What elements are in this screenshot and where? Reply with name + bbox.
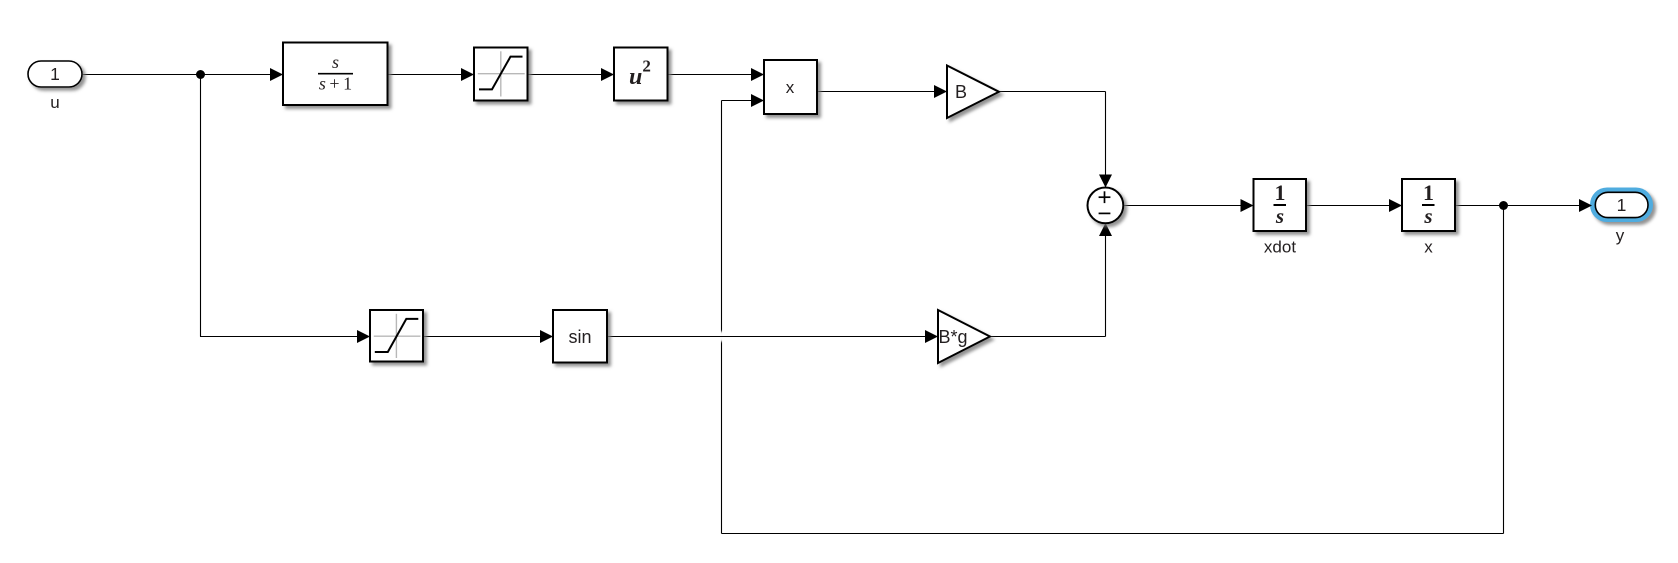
svg-text:y: y — [1616, 226, 1625, 245]
svg-text:1: 1 — [1423, 180, 1434, 205]
svg-text:s: s — [1275, 204, 1284, 228]
svg-text:x: x — [1424, 238, 1433, 257]
svg-text:s + 1: s + 1 — [319, 74, 352, 94]
svg-text:s: s — [1423, 204, 1432, 228]
svg-text:1: 1 — [1275, 180, 1286, 205]
svg-text:xdot: xdot — [1264, 238, 1296, 257]
svg-text:B: B — [955, 82, 967, 102]
svg-text:B*g: B*g — [939, 327, 968, 347]
svg-text:sin: sin — [568, 327, 591, 347]
svg-text:1: 1 — [50, 64, 60, 84]
svg-text:1: 1 — [1617, 195, 1627, 215]
svg-text:x: x — [786, 78, 795, 97]
svg-text:s: s — [332, 52, 339, 72]
svg-text:u: u — [50, 93, 59, 112]
